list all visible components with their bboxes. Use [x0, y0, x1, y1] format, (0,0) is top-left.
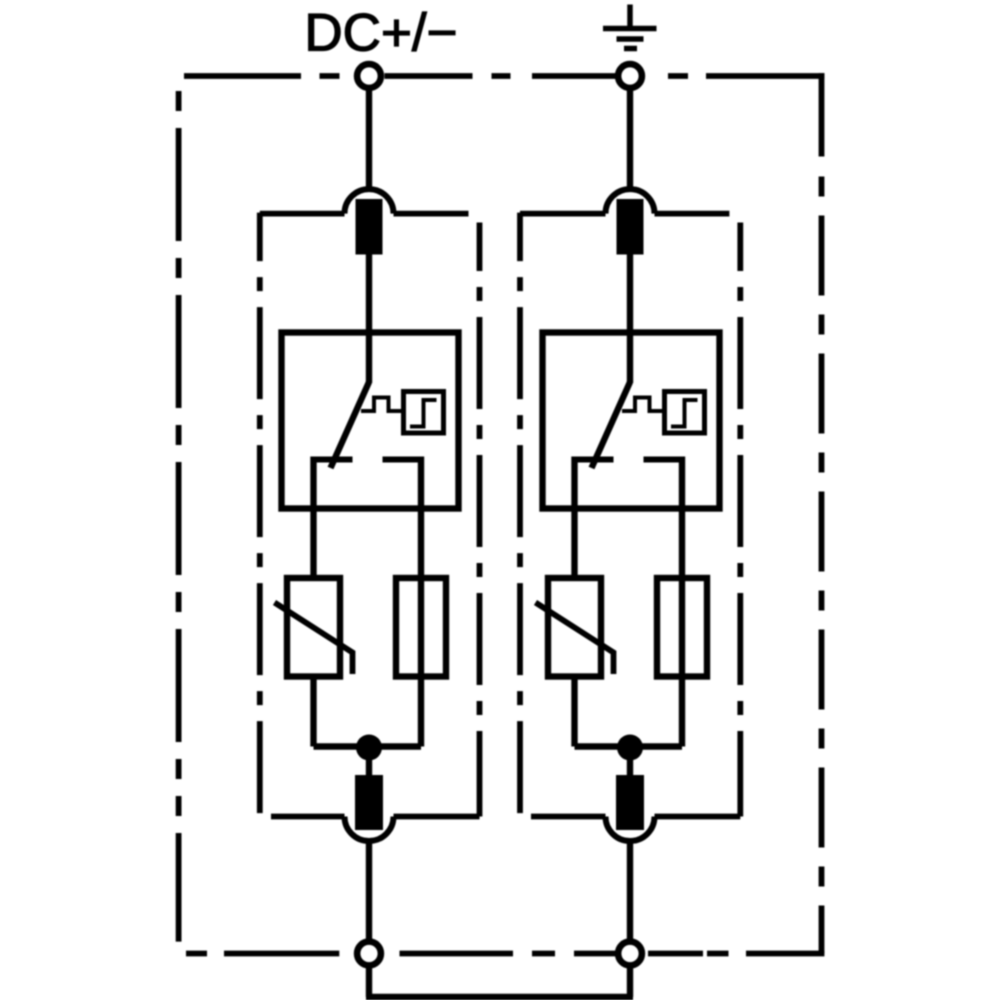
wire right column through fuse, module 2	[679, 457, 685, 747]
varistor RV2 body	[548, 578, 601, 677]
thermal disconnector box U2	[543, 333, 720, 509]
mechanical linkage (stepped), module 2	[622, 398, 665, 412]
svg-text:DC+/−: DC+/−	[304, 4, 457, 63]
module 2 boundary left edge (dash-dot)	[517, 213, 523, 814]
wire varistor to junction, module 1	[310, 677, 316, 747]
ground symbol (earth)	[603, 5, 657, 49]
junction wire bottom, module 1	[314, 743, 422, 749]
wire bottom contact to terminal, module 1	[366, 841, 372, 940]
plug-in contact arc bottom, module 1	[345, 817, 394, 842]
wire linking both bottom terminals	[366, 994, 633, 1000]
thermal trip indicator box, module 1	[404, 392, 444, 434]
thermal trip indicator box, module 2	[665, 392, 705, 434]
step-function symbol, module 2	[671, 400, 698, 427]
plug-in contact bar (black) top, module 1	[356, 199, 383, 255]
module 1 boundary left edge (dash-dot)	[257, 213, 263, 814]
terminal circle X2 top	[618, 64, 642, 88]
module 2 boundary bottom edge with plug-in contact arc	[531, 814, 606, 820]
mechanical linkage (stepped), module 1	[361, 398, 404, 412]
enclosure dash-dot boundary left edge	[176, 91, 182, 942]
wire contact to disconnector, module 1	[366, 255, 372, 384]
enclosure dash-dot boundary right edge	[819, 73, 825, 953]
plug-in contact bar (black) bottom, module 2	[616, 775, 644, 830]
wire varistor to junction, module 2	[571, 677, 577, 747]
terminal circle X1 top	[357, 64, 381, 88]
wire below bottom terminal, module 2	[627, 968, 633, 997]
module 1 boundary top edge with plug-in contact arc	[260, 211, 345, 217]
wire right column through fuse, module 1	[418, 457, 424, 747]
plug-in contact arc top, module 1	[345, 189, 394, 214]
junction node dot, module 1	[356, 735, 382, 761]
wire left column to varistor, module 1	[310, 457, 316, 579]
varistor RV1 diagonal stroke	[275, 603, 353, 675]
enclosure dash-dot boundary bottom edge	[186, 951, 824, 957]
wire dot to bottom contact, module 1	[366, 755, 372, 776]
varistor RV1 body	[287, 578, 340, 677]
fuse F1 body	[396, 578, 446, 677]
junction wire bottom, module 2	[575, 743, 683, 749]
plug-in contact bar (black) bottom, module 1	[355, 775, 383, 830]
terminal circle X2 bottom	[618, 942, 642, 966]
wire left column to varistor, module 2	[571, 457, 577, 579]
fuse F2 body	[657, 578, 707, 677]
module 1 boundary right edge (dash-dot)	[477, 223, 483, 817]
fixed contact box (open at blade), module 2	[575, 457, 683, 463]
plug-in contact arc top, module 2	[606, 189, 655, 214]
fixed contact box (open at blade), module 1	[314, 457, 422, 463]
thermal disconnector box U1	[282, 333, 459, 509]
wire terminal X2 to top contact	[627, 91, 633, 192]
wire contact to disconnector, module 2	[627, 255, 633, 384]
disconnector switch blade, module 1	[331, 382, 370, 468]
terminal circle X1 bottom	[357, 942, 381, 966]
disconnector switch blade, module 2	[592, 382, 631, 468]
wire bottom contact to terminal, module 2	[627, 841, 633, 940]
wire terminal X1 to top contact	[366, 91, 372, 192]
plug-in contact arc bottom, module 2	[606, 817, 655, 842]
module 1 boundary bottom edge with plug-in contact arc	[271, 814, 345, 820]
enclosure dash-dot boundary top edge	[184, 73, 824, 79]
wire below bottom terminal, module 1	[366, 968, 372, 997]
step-function symbol, module 1	[410, 400, 437, 427]
varistor RV2 diagonal stroke	[536, 603, 614, 675]
junction node dot, module 2	[617, 735, 643, 761]
wire dot to bottom contact, module 2	[627, 755, 633, 776]
module 2 boundary top edge with plug-in contact arc	[520, 211, 606, 217]
plug-in contact bar (black) top, module 2	[617, 199, 644, 255]
module 2 boundary right edge (dash-dot)	[737, 223, 743, 817]
